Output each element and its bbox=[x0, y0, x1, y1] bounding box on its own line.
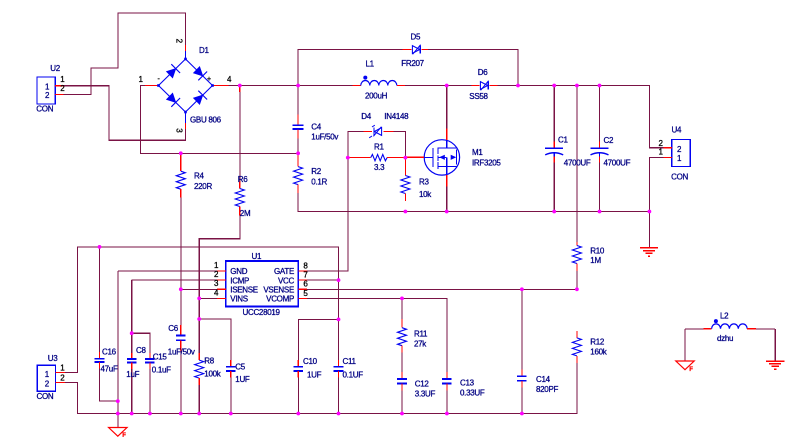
wire ICMP pin2 net bbox=[132, 279, 217, 281]
svg-text:FR207: FR207 bbox=[401, 59, 424, 68]
svg-text:10k: 10k bbox=[419, 190, 432, 199]
svg-text:C5: C5 bbox=[235, 362, 245, 371]
svg-text:VSENSE: VSENSE bbox=[263, 285, 294, 294]
svg-text:1uF/50v: 1uF/50v bbox=[168, 347, 195, 356]
svg-text:R4: R4 bbox=[194, 171, 204, 180]
svg-text:D5: D5 bbox=[411, 32, 421, 41]
wire C6 bottom bbox=[180, 351, 182, 414]
svg-text:D6: D6 bbox=[478, 68, 488, 77]
wire M1 drain from boost node bbox=[446, 86, 448, 129]
ground earth (output) bbox=[640, 248, 658, 256]
wire C12 bottom bbox=[401, 391, 403, 414]
svg-text:R6: R6 bbox=[238, 175, 248, 184]
svg-text:1uF/50v: 1uF/50v bbox=[311, 132, 338, 141]
svg-text:VCC: VCC bbox=[278, 276, 295, 285]
svg-text:VINS: VINS bbox=[230, 295, 247, 304]
wire bridge pin1 to rectified rail bbox=[141, 86, 299, 154]
capacitor C11 bbox=[334, 357, 363, 380]
wire R10 column from output bbox=[576, 86, 578, 290]
wire GND drop to ground rail bbox=[117, 271, 119, 428]
diode D4 bbox=[348, 112, 409, 138]
capacitor C2 bbox=[591, 136, 631, 167]
wire C2 column bbox=[599, 86, 601, 212]
svg-text:4700UF: 4700UF bbox=[564, 158, 591, 167]
svg-text:C13: C13 bbox=[460, 379, 475, 388]
svg-text:U1: U1 bbox=[252, 252, 262, 261]
svg-text:2M: 2M bbox=[240, 209, 251, 218]
wire D6 to output rail and U4 pin2 bbox=[498, 86, 664, 148]
connector U3 bbox=[37, 354, 66, 401]
svg-text:R12: R12 bbox=[590, 338, 605, 347]
wire VCC branch to C10 bbox=[298, 319, 338, 360]
wire ground rail (power stage) bbox=[298, 193, 649, 211]
wire ISENSE pin3 net bbox=[181, 288, 217, 290]
wire VINS to C5 bbox=[199, 319, 231, 360]
resistor R8 bbox=[195, 353, 222, 385]
svg-text:GATE: GATE bbox=[274, 267, 294, 276]
wire D4 right corner to gate node bbox=[394, 132, 406, 158]
resistor R3 bbox=[401, 158, 432, 201]
svg-text:1UF: 1UF bbox=[235, 375, 250, 384]
svg-text:C6: C6 bbox=[168, 324, 178, 333]
svg-text:ICMP: ICMP bbox=[230, 276, 249, 285]
wire C8 bottom bbox=[131, 369, 133, 414]
wire D5 branch from C4 node bbox=[298, 50, 403, 115]
wire U2 pin2 to bridge pin2 net bbox=[64, 13, 186, 95]
svg-text:+: + bbox=[207, 76, 211, 83]
svg-text:160k: 160k bbox=[590, 348, 607, 357]
svg-text:27k: 27k bbox=[414, 339, 427, 348]
svg-text:IRF3205: IRF3205 bbox=[472, 159, 501, 168]
svg-text:UCC28019: UCC28019 bbox=[243, 308, 281, 317]
wire C10 bottom bbox=[297, 378, 299, 414]
wire C1 column bbox=[553, 86, 555, 212]
svg-text:1M: 1M bbox=[590, 256, 601, 265]
svg-text:C14: C14 bbox=[536, 375, 551, 384]
svg-text:U4: U4 bbox=[672, 126, 682, 135]
connector U4 bbox=[659, 126, 691, 182]
wire U2 pin1 to bridge pin3 net bbox=[64, 86, 186, 141]
resistor R12 bbox=[572, 331, 607, 363]
svg-text:0.33UF: 0.33UF bbox=[460, 389, 485, 398]
svg-text:200uH: 200uH bbox=[365, 92, 388, 101]
svg-text:L1: L1 bbox=[366, 60, 375, 69]
wire VINS pin4 net bbox=[199, 297, 217, 299]
capacitor C6 bbox=[168, 324, 195, 357]
wire C13 bottom bbox=[446, 391, 448, 414]
svg-text:C4: C4 bbox=[311, 122, 321, 131]
resistor R2 bbox=[294, 153, 328, 193]
svg-text:1uF: 1uF bbox=[126, 370, 139, 379]
svg-text:C1: C1 bbox=[558, 136, 568, 145]
diode D5 bbox=[401, 32, 428, 68]
svg-text:CON: CON bbox=[671, 173, 688, 182]
svg-text:GBU 806: GBU 806 bbox=[190, 115, 222, 124]
capacitor C15 bbox=[145, 352, 171, 374]
svg-text:dzhu: dzhu bbox=[717, 334, 733, 343]
capacitor C1 bbox=[545, 136, 591, 168]
svg-text:100k: 100k bbox=[204, 369, 221, 378]
wire R6 bottom to VINS net bbox=[199, 215, 240, 353]
svg-text:D1: D1 bbox=[199, 46, 209, 55]
ground earth L2 right bbox=[766, 361, 784, 369]
svg-text:220R: 220R bbox=[194, 182, 212, 191]
wire R12 to bottom ground rail and U3 pin2 bbox=[65, 363, 577, 414]
wire C15 bottom bbox=[149, 369, 151, 414]
wire R4 column to ISENSE and C6 bbox=[180, 198, 182, 325]
svg-text:3.3: 3.3 bbox=[374, 163, 385, 172]
inductor L1 bbox=[352, 60, 404, 101]
svg-text:1UF: 1UF bbox=[307, 370, 322, 379]
wire M1 source to ground rail bbox=[446, 187, 448, 212]
svg-text:R10: R10 bbox=[590, 246, 605, 255]
svg-text:C11: C11 bbox=[343, 357, 357, 366]
svg-text:GND: GND bbox=[230, 267, 247, 276]
svg-text:C10: C10 bbox=[303, 357, 318, 366]
svg-text:C8: C8 bbox=[136, 346, 146, 355]
svg-text:C15: C15 bbox=[153, 352, 168, 361]
svg-text:L2: L2 bbox=[720, 311, 729, 320]
svg-text:VCOMP: VCOMP bbox=[266, 295, 294, 304]
svg-text:47uF: 47uF bbox=[101, 364, 118, 373]
inductor L2 bbox=[685, 311, 775, 361]
svg-text:M1: M1 bbox=[472, 148, 483, 157]
capacitor C10 bbox=[294, 357, 322, 380]
svg-text:CON: CON bbox=[36, 104, 53, 113]
wire VCC pin7 net bbox=[307, 279, 339, 281]
wire ICMP drop to C8 bbox=[131, 280, 133, 353]
wire U4 pin1 to ground bbox=[649, 158, 663, 248]
svg-text:4700UF: 4700UF bbox=[604, 158, 631, 167]
wire C4 bottom to R2 node bbox=[297, 131, 299, 153]
diode D6 bbox=[469, 68, 497, 101]
resistor R6 bbox=[235, 86, 251, 219]
wire C5 bottom bbox=[230, 378, 232, 414]
wire D5 cathode down to output node bbox=[428, 50, 518, 86]
resistor R1 bbox=[348, 143, 406, 173]
wire GATE pin8 to R1/D4 bbox=[307, 132, 363, 271]
svg-text:CON: CON bbox=[37, 392, 54, 401]
resistor R4 bbox=[176, 153, 212, 197]
wire C11 bottom bbox=[338, 378, 340, 414]
svg-text:SS58: SS58 bbox=[469, 92, 488, 101]
wire C16 bottom to GND drop bbox=[100, 369, 118, 402]
svg-text:R11: R11 bbox=[414, 330, 428, 339]
op-amp U1 UCC28019 bbox=[214, 252, 308, 317]
capacitor C12 bbox=[397, 372, 435, 399]
ground (F) L2 left bbox=[676, 361, 694, 373]
wire U3 pin1 to VCC top line bbox=[65, 247, 339, 373]
capacitor C14 bbox=[517, 370, 558, 394]
svg-text:R3: R3 bbox=[419, 178, 429, 187]
wire VCOMP pin5 net to C13 bbox=[307, 298, 447, 371]
svg-text:C16: C16 bbox=[102, 348, 117, 357]
capacitor C8 bbox=[126, 346, 146, 379]
svg-text:ISENSE: ISENSE bbox=[230, 285, 258, 294]
wire L1 to D6/M1 node bbox=[405, 85, 472, 87]
capacitor C16 bbox=[95, 348, 118, 374]
svg-text:IN4148: IN4148 bbox=[384, 112, 409, 121]
wire VSENSE pin6 net bbox=[307, 288, 577, 290]
svg-text:U2: U2 bbox=[50, 64, 60, 73]
wire bridge pin4 to L1 bbox=[229, 85, 353, 87]
wire R11 branch bbox=[401, 298, 403, 372]
svg-text:3.3UF: 3.3UF bbox=[415, 390, 436, 399]
svg-text:U3: U3 bbox=[48, 354, 58, 363]
wire R8 bottom bbox=[198, 385, 200, 414]
transistor M1 bbox=[405, 129, 501, 187]
svg-text:R1: R1 bbox=[374, 143, 384, 152]
svg-text:0.1R: 0.1R bbox=[311, 177, 327, 186]
capacitor C4 bbox=[293, 115, 339, 142]
svg-text:C2: C2 bbox=[604, 136, 614, 145]
bridge rectifier D1 bbox=[139, 39, 233, 134]
ground (F) main rail bbox=[109, 428, 127, 437]
wire ICMP branch to C15 bbox=[132, 333, 150, 353]
svg-text:D4: D4 bbox=[361, 112, 371, 121]
svg-text:0.1uF: 0.1uF bbox=[152, 365, 171, 374]
svg-text:0.1UF: 0.1UF bbox=[343, 370, 364, 379]
wire R6 top tap bbox=[239, 86, 241, 182]
connector U2 bbox=[36, 64, 65, 113]
svg-text:C12: C12 bbox=[415, 380, 430, 389]
svg-text:R2: R2 bbox=[311, 167, 321, 176]
resistor R11 bbox=[398, 319, 429, 353]
capacitor C5 bbox=[226, 360, 250, 384]
wire C16 column bbox=[99, 247, 101, 352]
wire C14 branch bbox=[521, 289, 523, 413]
resistor R10 bbox=[572, 242, 605, 271]
svg-text:820PF: 820PF bbox=[536, 385, 558, 394]
capacitor C13 bbox=[442, 372, 485, 398]
svg-text:R8: R8 bbox=[204, 356, 214, 365]
wire GND pin1 net bbox=[118, 270, 217, 272]
